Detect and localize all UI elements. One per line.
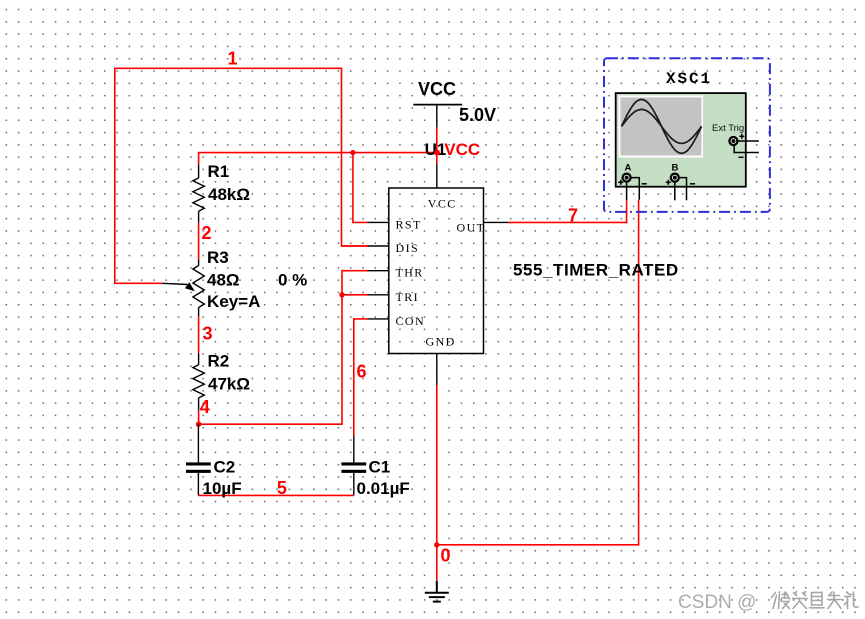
oscilloscope screen (621, 97, 702, 155)
terminal B lead + stub (674, 181, 676, 200)
svg-text:5.0V: 5.0V (459, 105, 496, 125)
wire net VCC/RST: R1 top to VCC rail (199, 153, 437, 165)
svg-text:VCC: VCC (444, 140, 480, 159)
svg-text:A: A (625, 163, 632, 174)
pin GND bottom stub (436, 354, 438, 386)
wire net 0 horizontal to scope A- (437, 200, 639, 545)
wire net 0: GND rail (436, 385, 438, 581)
svg-text:U1: U1 (425, 140, 447, 159)
polarity marks (618, 134, 744, 185)
terminal A lead - (to net 0) (630, 178, 639, 200)
junction RST/VCC (350, 150, 355, 155)
wire RST branch (353, 153, 368, 223)
junction node 0 (434, 542, 439, 547)
svg-text:Key=A: Key=A (207, 292, 260, 311)
svg-text:1: 1 (228, 49, 238, 69)
pin stubs left (368, 222, 389, 319)
terminal A lead + (to net 7) (626, 181, 628, 200)
wire net 1: pot wiper to DIS, top loop (115, 68, 368, 283)
svg-text:RST: RST (396, 217, 422, 231)
capacitor C1 (341, 436, 366, 496)
svg-text:3: 3 (203, 324, 213, 344)
oscilloscope body (616, 93, 746, 187)
wire net 5: C2 bottom to C1 bottom (198, 494, 353, 496)
svg-text:0: 0 (441, 546, 451, 566)
svg-text:555_TIMER_RATED: 555_TIMER_RATED (513, 261, 679, 280)
terminal Ext Trig lead + stub (738, 140, 759, 142)
wire net 4: R2 bottom to THR/TRI (199, 271, 368, 425)
resistor R2 (193, 353, 204, 410)
oscilloscope screen frame (619, 96, 704, 158)
wire TRI branch (342, 294, 368, 296)
svg-text:6: 6 (357, 361, 367, 381)
junction VCC rail (434, 150, 439, 155)
svg-text:47kΩ: 47kΩ (208, 375, 250, 394)
svg-text:0.01µF: 0.01µF (357, 479, 410, 498)
VCC power symbol (413, 104, 462, 106)
svg-text:OUT: OUT (457, 221, 486, 235)
wire net 6: CON to C1 top (354, 319, 368, 436)
svg-text:R2: R2 (208, 351, 230, 370)
svg-text:DIS: DIS (396, 241, 420, 255)
svg-text:CON: CON (396, 314, 426, 328)
wire VCC vertical red segment (436, 128, 438, 164)
svg-text:C2: C2 (214, 457, 236, 476)
wire net 7: OUT to scope A+ (508, 200, 627, 222)
svg-text:5: 5 (277, 478, 287, 498)
pin OUT stub (484, 221, 509, 223)
svg-text:TRI: TRI (396, 290, 420, 304)
svg-text:B: B (672, 163, 679, 174)
oscilloscope XSC1 dashed selection box (604, 58, 770, 212)
watermark CJK glyph approximations (772, 592, 859, 609)
svg-text:0 %: 0 % (278, 270, 307, 289)
svg-text:10µF: 10µF (203, 479, 242, 498)
svg-text:48kΩ: 48kΩ (208, 185, 250, 204)
svg-text:Ext Trig: Ext Trig (712, 123, 744, 134)
555 timer U1 box (389, 188, 484, 354)
svg-text:VCC: VCC (418, 79, 456, 99)
capacitor C2 (186, 424, 211, 495)
junction VCC rail (top) (434, 150, 440, 156)
svg-text:2: 2 (202, 223, 212, 243)
wire net 3: pot bottom to R2 top (198, 316, 200, 353)
ground symbol (425, 581, 449, 602)
junction node 4 (196, 422, 201, 427)
svg-text:VCC: VCC (428, 197, 457, 211)
scope trace outer sine (622, 99, 702, 153)
wire net 2: R1 bottom to pot top (198, 222, 200, 259)
resistor R1 (193, 164, 204, 222)
terminal Ext Trig lead - stub (734, 146, 759, 153)
terminal Ext Trig (729, 137, 737, 145)
svg-text:4: 4 (200, 397, 210, 417)
svg-text:R3: R3 (207, 248, 229, 267)
potentiometer R3 (162, 259, 204, 316)
junction TRI (339, 292, 344, 297)
terminal A (623, 174, 631, 182)
svg-text:CSDN @: CSDN @ (678, 592, 756, 613)
svg-text:C1: C1 (369, 457, 391, 476)
svg-text:XSC1: XSC1 (666, 70, 712, 88)
svg-text:7: 7 (568, 205, 578, 225)
pot wiper arrow (185, 282, 195, 291)
svg-text:GND: GND (426, 335, 456, 349)
svg-text:THR: THR (396, 266, 424, 280)
terminal B (671, 174, 679, 182)
svg-text:R1: R1 (208, 162, 230, 181)
svg-text:48Ω: 48Ω (207, 270, 240, 289)
terminal B lead - stub (678, 178, 687, 201)
scope trace inner sine (622, 109, 702, 143)
wire DIS red lead into stub (342, 245, 368, 247)
pin VCC top stub (436, 164, 438, 188)
